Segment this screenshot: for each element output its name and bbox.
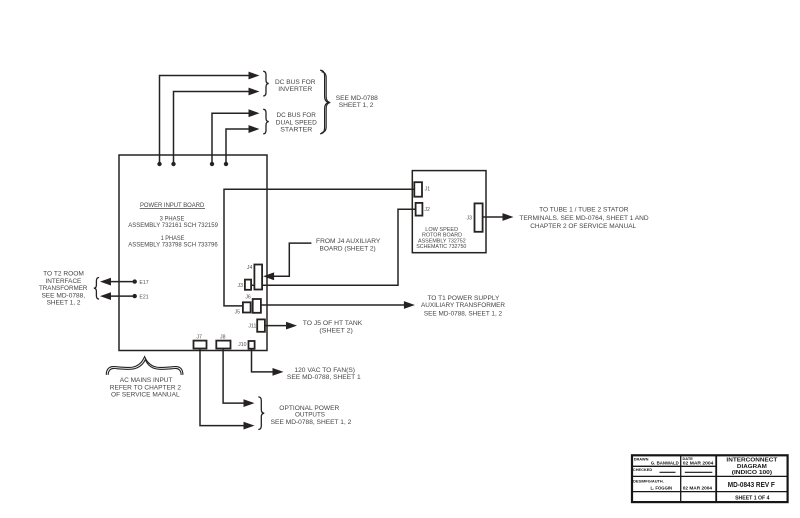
connector J11 — [257, 319, 265, 331]
brace optional power outputs — [258, 397, 264, 430]
svg-text:MD-0843 REV F: MD-0843 REV F — [728, 480, 776, 489]
wire rotor J3 to tube stator — [483, 216, 504, 218]
connector J7 — [194, 341, 207, 349]
svg-text:DC BUS FOR: DC BUS FOR — [277, 112, 317, 119]
svg-text:SEE MD-0788, SHEET 1, 2: SEE MD-0788, SHEET 1, 2 — [271, 419, 352, 426]
svg-text:TRANSFORMER: TRANSFORMER — [39, 285, 88, 292]
signature line checked — [660, 471, 676, 473]
wire J5 to rotor board J1 — [224, 189, 414, 306]
svg-text:CHECKED: CHECKED — [633, 467, 652, 472]
title block outer border — [632, 455, 788, 502]
svg-text:J10: J10 — [238, 342, 246, 348]
wire top pin 4 to DC bus dual speed starter — [226, 129, 250, 164]
svg-text:02 MAR 2004: 02 MAR 2004 — [683, 485, 713, 491]
svg-text:G. BANWALD: G. BANWALD — [651, 460, 679, 466]
svg-text:J6: J6 — [245, 295, 251, 301]
connector J6 — [253, 299, 261, 313]
terminal dot E17 — [133, 279, 137, 283]
brace to T2 room transformer — [94, 278, 99, 300]
svg-text:TO T2 ROOM: TO T2 ROOM — [43, 270, 84, 277]
arrow to tube stator — [503, 213, 514, 221]
svg-text:(SHEET 2): (SHEET 2) — [319, 327, 352, 334]
wire J7 to optional power outputs — [200, 349, 245, 426]
connector J5 — [243, 302, 251, 312]
svg-text:J1: J1 — [425, 187, 431, 193]
svg-text:(INDICO 100): (INDICO 100) — [732, 470, 772, 476]
svg-text:OUTPUTS: OUTPUTS — [295, 412, 326, 419]
wire E17 — [110, 281, 135, 283]
svg-text:J3: J3 — [238, 283, 244, 289]
brace DC bus for inverter — [263, 71, 269, 96]
wire J8 to optional power outputs — [223, 349, 244, 404]
svg-text:J5: J5 — [235, 310, 241, 316]
large brace see MD-0788 — [320, 70, 330, 134]
title block row line 1 — [632, 465, 716, 467]
svg-text:SCHEMATIC 732750: SCHEMATIC 732750 — [416, 244, 467, 250]
svg-text:OF SERVICE MANUAL: OF SERVICE MANUAL — [111, 392, 180, 399]
connector J1 rotor board — [414, 182, 422, 197]
junction dot pin 4 — [224, 162, 228, 166]
arrow to T1 power supply — [404, 301, 415, 309]
svg-text:J8: J8 — [220, 334, 226, 340]
arrow E21 — [100, 292, 111, 300]
wire J11 to J5 of HT tank — [265, 325, 287, 327]
svg-text:TO J5 OF HT TANK: TO J5 OF HT TANK — [303, 320, 363, 327]
connector J4 — [254, 265, 262, 290]
svg-text:INVERTER: INVERTER — [278, 86, 312, 93]
svg-text:CHAPTER 2 OF SERVICE MANUAL: CHAPTER 2 OF SERVICE MANUAL — [530, 223, 636, 230]
svg-text:DES/MFG/AUTH.: DES/MFG/AUTH. — [633, 479, 664, 484]
svg-text:DUAL SPEED: DUAL SPEED — [276, 119, 317, 126]
svg-text:SHEET 1 OF 4: SHEET 1 OF 4 — [735, 495, 770, 501]
wire J6 to T1 power supply — [261, 304, 405, 306]
arrow to J5 of HT tank — [286, 322, 297, 330]
connector J10 — [249, 341, 255, 349]
svg-text:SHEET 1, 2: SHEET 1, 2 — [339, 102, 374, 109]
svg-text:J7: J7 — [196, 334, 202, 340]
svg-text:SHEET 1, 2: SHEET 1, 2 — [47, 300, 81, 307]
svg-text:DRAWN: DRAWN — [634, 456, 649, 461]
svg-text:J11: J11 — [248, 323, 256, 329]
svg-text:AC MAINS INPUT: AC MAINS INPUT — [120, 377, 173, 384]
svg-text:DIAGRAM: DIAGRAM — [737, 464, 767, 470]
brace AC mains input — [106, 357, 183, 375]
signature line date — [685, 471, 713, 473]
title block row line 2 — [632, 475, 788, 477]
brace DC bus for dual speed starter — [263, 109, 269, 134]
wire top pin 3 to DC bus dual speed starter — [212, 113, 250, 164]
junction dot pin 3 — [210, 162, 214, 166]
power input board box — [119, 155, 267, 351]
arrow to 120VAC fans — [273, 368, 284, 376]
connector J2 rotor board — [416, 203, 423, 216]
wire rotor board J2 to J3 — [251, 209, 416, 285]
svg-text:02 MAR 2004: 02 MAR 2004 — [683, 460, 714, 466]
connector J3 — [245, 280, 251, 290]
connector J3 rotor board — [475, 203, 483, 231]
arrow into J4 — [263, 272, 274, 280]
title block row line 3 — [632, 491, 788, 493]
svg-text:BOARD (SHEET 2): BOARD (SHEET 2) — [320, 246, 376, 253]
junction dot pin 2 — [171, 162, 175, 166]
svg-text:FROM J4 AUXILIARY: FROM J4 AUXILIARY — [316, 238, 381, 245]
arrow to DC bus starter line 1 — [249, 109, 260, 117]
wire J10 to 120VAC fans — [252, 349, 274, 372]
svg-text:INTERFACE: INTERFACE — [45, 278, 81, 285]
svg-text:ASSEMBLY 733798 SCH 733796: ASSEMBLY 733798 SCH 733796 — [128, 242, 218, 249]
svg-text:SEE MD-0788,: SEE MD-0788, — [41, 293, 85, 300]
svg-text:J2: J2 — [424, 207, 430, 213]
svg-text:J4: J4 — [247, 265, 253, 271]
wire top pin 1 to DC bus inverter — [160, 76, 250, 165]
svg-text:TERMINALS. SEE MD-0764, SHEET: TERMINALS. SEE MD-0764, SHEET 1 AND — [519, 215, 649, 222]
svg-text:STARTER: STARTER — [280, 127, 312, 134]
low speed rotor board box — [412, 171, 486, 253]
arrow optional power 1 — [244, 399, 255, 407]
svg-text:TO TUBE 1 / TUBE 2 STATOR: TO TUBE 1 / TUBE 2 STATOR — [539, 207, 629, 214]
svg-text:AUXILIARY TRANSFORMER: AUXILIARY TRANSFORMER — [421, 302, 505, 309]
arrow to DC bus starter line 2 — [249, 125, 260, 133]
title block vertical divider 1 — [680, 455, 682, 502]
title block vertical divider 2 — [715, 455, 717, 502]
junction dot pin 1 — [157, 162, 161, 166]
terminal dot E21 — [133, 294, 137, 298]
svg-text:DC BUS FOR: DC BUS FOR — [275, 79, 316, 86]
svg-text:L. FOGGIN: L. FOGGIN — [650, 485, 672, 491]
svg-text:J3: J3 — [467, 216, 473, 222]
svg-text:INTERCONNECT: INTERCONNECT — [726, 457, 777, 463]
svg-text:TO T1 POWER SUPPLY: TO T1 POWER SUPPLY — [427, 295, 499, 302]
connector J8 — [216, 341, 230, 349]
wire from J4 auxiliary board label to J4 — [274, 243, 312, 276]
arrow to DC bus inverter line 2 — [249, 88, 260, 96]
arrow optional power 2 — [244, 422, 255, 430]
svg-text:DATE: DATE — [683, 456, 694, 461]
arrow to DC bus inverter line 1 — [249, 72, 260, 80]
svg-text:E21: E21 — [139, 294, 148, 300]
wire E21 — [110, 295, 135, 297]
svg-text:SEE MD-0788, SHEET 1, 2: SEE MD-0788, SHEET 1, 2 — [424, 310, 503, 317]
svg-text:REFER TO CHAPTER 2: REFER TO CHAPTER 2 — [110, 384, 182, 391]
svg-text:E17: E17 — [139, 280, 148, 286]
wire top pin 2 to DC bus inverter — [174, 92, 250, 165]
svg-text:ASSEMBLY 732161 SCH 732159: ASSEMBLY 732161 SCH 732159 — [128, 222, 218, 229]
svg-text:SEE MD-0788, SHEET 1: SEE MD-0788, SHEET 1 — [287, 374, 361, 381]
arrow E17 — [100, 278, 111, 286]
